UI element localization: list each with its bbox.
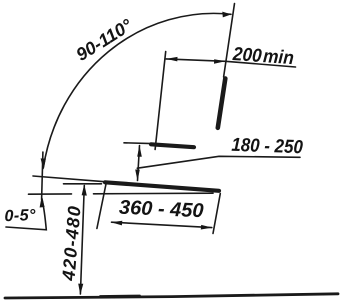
dimension shaft 180-250 vertical [138, 146, 140, 181]
extension line 360 left slanted [97, 184, 106, 229]
extension line 360 right slanted [213, 194, 220, 234]
extension line left of 200min [155, 52, 166, 150]
svg-text:90-110°: 90-110° [73, 15, 137, 65]
dimension line 420-480 [80, 186, 84, 295]
svg-text:0-5°: 0-5° [4, 206, 36, 225]
dimension line 360-450 [112, 222, 212, 227]
arrowhead 200min left [166, 57, 178, 62]
mid lamp thin line [124, 142, 152, 145]
arrowhead 360 right [201, 225, 213, 230]
svg-text:360 - 450: 360 - 450 [119, 197, 204, 223]
arrowhead mid bottom [135, 170, 140, 181]
electrode thick bar [218, 79, 226, 128]
filler rod thick bar [105, 182, 219, 191]
ground line overlap stroke [100, 294, 140, 297]
arrowhead 200min right [214, 59, 226, 64]
vertical extension at x42 [42, 152, 43, 200]
svg-text:200 min: 200 min [231, 44, 294, 69]
arrowhead arc lower end [41, 158, 46, 169]
leader 180-250 [137, 156, 300, 168]
arrowhead 0-5 leader [40, 196, 45, 207]
arrowhead 420 bottom [78, 284, 83, 295]
long horizontal reference line C right [94, 192, 214, 195]
0-5 underline and curved leader [6, 198, 46, 229]
svg-text:180 - 250: 180 - 250 [231, 135, 304, 158]
long horizontal reference line C left [29, 193, 72, 195]
electrode axis line [224, 4, 235, 78]
ground line [5, 294, 338, 298]
arrowhead arc right end [222, 12, 231, 18]
arrowhead 420 top [82, 184, 87, 195]
dimension line 200min [166, 59, 296, 67]
filler axis extension line A [33, 176, 106, 182]
mid lamp thick bar [151, 144, 194, 147]
arrowhead 360 left [111, 221, 122, 226]
arrowhead mid top [137, 145, 142, 157]
short horizontal reference line B [64, 183, 102, 185]
dimension arc 90-110 [43, 13, 231, 168]
